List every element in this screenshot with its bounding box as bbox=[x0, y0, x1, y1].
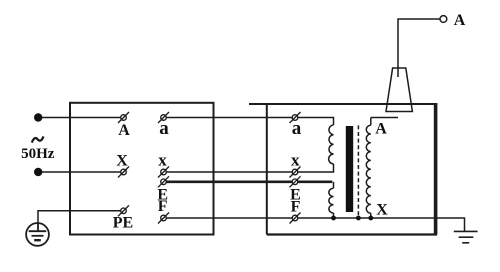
svg-text:F: F bbox=[291, 199, 301, 216]
svg-text:X: X bbox=[116, 152, 128, 169]
svg-text:x: x bbox=[158, 150, 167, 169]
svg-text:A: A bbox=[454, 12, 466, 29]
svg-text:PE: PE bbox=[113, 215, 133, 232]
svg-text:a: a bbox=[159, 118, 169, 139]
svg-text:a: a bbox=[292, 118, 302, 139]
svg-text:50Hz: 50Hz bbox=[21, 146, 55, 162]
svg-text:x: x bbox=[291, 151, 300, 170]
svg-text:A: A bbox=[375, 121, 387, 138]
svg-text:X: X bbox=[376, 202, 388, 219]
svg-text:A: A bbox=[118, 122, 130, 139]
svg-text:F: F bbox=[158, 198, 168, 215]
